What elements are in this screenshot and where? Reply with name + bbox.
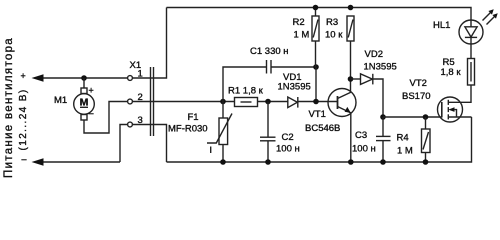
wire: gate line [383,116,442,118]
resistor R2 [312,8,319,68]
svg-text:+: + [21,71,26,81]
svg-text:100 н: 100 н [352,144,376,155]
svg-text:(12...24 В): (12...24 В) [18,88,29,150]
svg-text:+: + [89,86,94,96]
node: C2 ground [265,159,271,165]
svg-text:–: – [89,108,94,118]
node: R1/C2/VD1 [265,99,271,105]
svg-text:–: – [22,154,27,164]
capacitor C1 [223,60,316,102]
wire: - supply rail (left) [38,161,120,163]
node: F1/C1 tap [220,99,226,105]
node: motor + junction [81,75,87,81]
wire: node down to base node [315,67,317,102]
wire: pin 1 to top rail [132,8,166,79]
wire: ground rail [167,117,472,162]
svg-text:R1 1,8 к: R1 1,8 к [228,86,264,97]
connector X1 pin 3 [128,122,133,127]
svg-text:1,8 к: 1,8 к [441,67,462,78]
svg-text:BC546B: BC546B [305,123,340,134]
wire: left rail up to pin 3 [120,125,128,163]
connector X1 pin 1 [128,76,133,81]
wire: motor - to pin 2 [84,102,128,134]
svg-text:C2: C2 [282,132,294,143]
svg-text:1N3595: 1N3595 [364,61,397,72]
wire: pin 3 to ground rail [132,125,166,163]
arrow: + supply (points left) [32,74,44,82]
svg-text:1 М: 1 М [294,30,310,41]
svg-text:C3: C3 [355,130,367,141]
svg-text:1 М: 1 М [397,146,413,157]
node: emitter ground [348,159,354,165]
node: R4 top [423,114,429,120]
svg-text:R2: R2 [293,17,305,28]
node: R4 ground [423,159,429,165]
svg-text:BS170: BS170 [402,91,431,102]
fuse F1 MF-R030 (self-resetting) [207,102,232,163]
connector X1 mating lines [150,67,152,136]
svg-text:F1: F1 [188,112,199,123]
diode VD2 1N3595 [351,74,384,117]
resistor R5 [468,44,475,85]
svg-text:R4: R4 [397,133,409,144]
svg-text:VD2: VD2 [365,49,383,60]
svg-text:10 к: 10 к [325,30,343,41]
connector X1 pin 2 [128,99,133,104]
node: gate/C3 [380,114,386,120]
node: F1 ground [220,159,226,165]
svg-text:C1 330 н: C1 330 н [250,46,289,57]
node: R3 top rail [348,5,354,11]
motor M1 [74,86,95,121]
LED HL1 [459,9,498,44]
capacitor C3 [376,117,391,162]
wire: pin 2 to R1 [132,101,234,103]
resistor R4 [422,117,431,162]
node: C1/R2/VD1-cathode [313,64,319,70]
capacitor C2 [260,102,276,163]
arrow: - supply (points left) [32,158,44,166]
node: VT1 base node [313,99,319,105]
svg-text:R3: R3 [326,17,338,28]
resistor R3 [347,16,354,93]
node: C3 ground [380,159,386,165]
svg-text:M1: M1 [54,95,67,106]
diode VD1 1N3595 [288,97,338,108]
transistor VT1 BC546B [328,89,356,163]
wire: +supply line to pin 1 [38,77,128,79]
transistor VT2 BS170 (MOSFET) [438,85,472,122]
svg-text:Питание вентилятора: Питание вентилятора [3,37,15,178]
svg-text:VT2: VT2 [410,78,427,89]
wire: motor top lead [83,78,85,88]
svg-text:VT1: VT1 [309,109,326,120]
wire: top rail [167,8,472,21]
svg-text:MF-R030: MF-R030 [168,124,208,135]
node: VD2 anode tap [348,76,354,82]
resistor R1 [235,98,288,107]
svg-text:1N3595: 1N3595 [278,82,311,93]
svg-text:100 н: 100 н [276,144,300,155]
svg-text:HL1: HL1 [433,20,450,31]
node: R2 top rail [313,5,319,11]
